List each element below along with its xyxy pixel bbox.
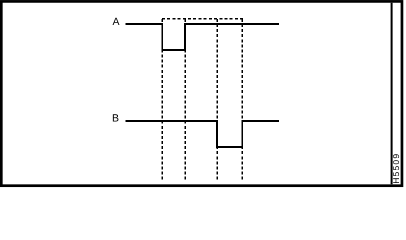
svg-text:H5509: H5509 bbox=[391, 153, 401, 184]
svg-text:B: B bbox=[112, 112, 119, 124]
svg-text:A: A bbox=[113, 16, 120, 28]
